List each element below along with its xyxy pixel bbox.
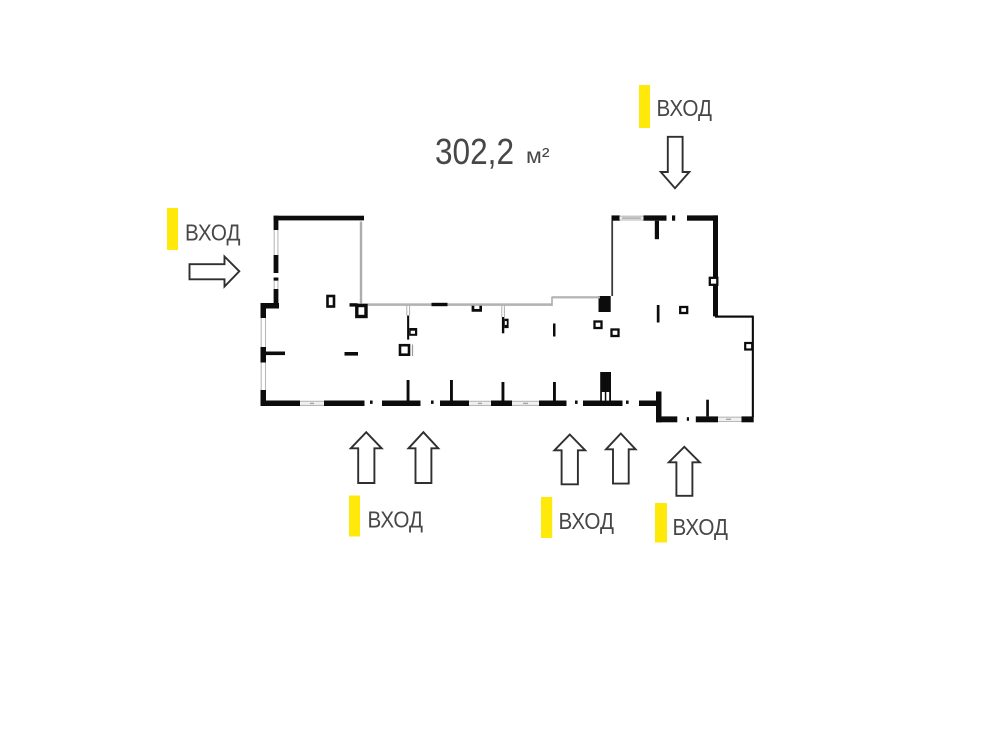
svg-text:ВХОД: ВХОД — [368, 507, 424, 533]
svg-text:ВХОД: ВХОД — [657, 95, 713, 121]
svg-text:ВХОД: ВХОД — [673, 514, 729, 540]
svg-text:302,2: 302,2 — [435, 131, 514, 172]
svg-text:ВХОД: ВХОД — [185, 220, 241, 246]
svg-text:ВХОД: ВХОД — [559, 508, 615, 534]
svg-text:м²: м² — [526, 145, 550, 168]
